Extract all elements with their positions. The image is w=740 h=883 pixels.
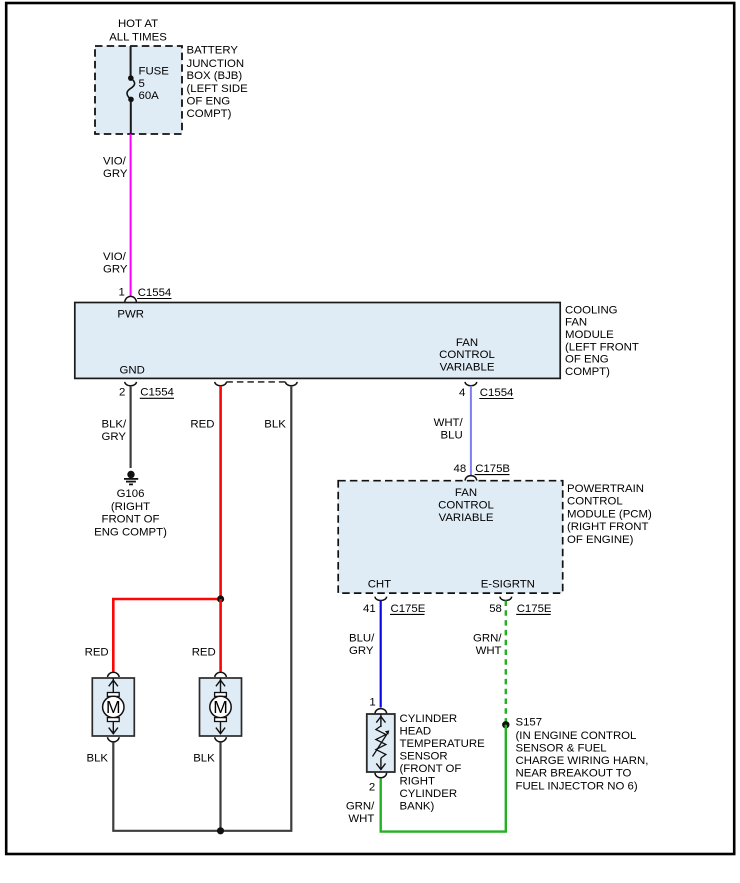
label WHT/BLU (434, 417, 464, 442)
svg-text:GND: GND (120, 365, 145, 377)
svg-text:C175E: C175E (391, 603, 426, 615)
svg-text:BLK/: BLK/ (102, 418, 128, 430)
svg-text:VARIABLE: VARIABLE (439, 512, 494, 524)
svg-text:CHT: CHT (368, 578, 391, 590)
svg-text:OF ENG: OF ENG (565, 354, 609, 366)
svg-text:BANK): BANK) (400, 801, 435, 813)
svg-text:GRY: GRY (349, 645, 374, 657)
wire WHT/BLU (470, 386, 472, 476)
svg-text:2: 2 (119, 387, 125, 399)
svg-text:OF ENGINE): OF ENGINE) (567, 534, 634, 546)
svg-text:HEAD: HEAD (400, 726, 432, 738)
svg-text:RED: RED (192, 647, 216, 659)
label POWERTRAIN CONTROL MODULE (567, 483, 652, 546)
connector C175B pin 48 (465, 463, 510, 481)
svg-text:HOT AT: HOT AT (118, 18, 158, 30)
pin name CHT (368, 578, 391, 590)
label BLK/GRY (102, 418, 128, 443)
svg-text:4: 4 (459, 387, 465, 399)
label BLK (motor 2) (193, 753, 215, 765)
svg-text:RED: RED (190, 418, 214, 430)
svg-text:C175B: C175B (475, 463, 510, 475)
wire RED junction to motor 2 (219, 599, 222, 672)
connector arc RED pin (215, 382, 227, 386)
ground G106 (124, 471, 138, 485)
label COOLING FAN MODULE (565, 304, 639, 378)
pin 2 label (119, 387, 125, 399)
svg-text:FAN: FAN (565, 317, 587, 329)
wire RED horizontal branch (113, 599, 220, 672)
svg-text:M: M (213, 697, 228, 717)
svg-text:(IN ENGINE CONTROL: (IN ENGINE CONTROL (516, 730, 637, 742)
pin name E-SIGRTN (481, 578, 535, 590)
svg-text:RIGHT: RIGHT (400, 776, 435, 788)
label RED (motor 2) (192, 647, 216, 659)
label HOT AT ALL TIMES (109, 18, 167, 44)
svg-text:PWR: PWR (117, 308, 144, 320)
svg-text:1: 1 (369, 697, 375, 709)
svg-text:C175E: C175E (517, 603, 552, 615)
svg-text:E-SIGRTN: E-SIGRTN (481, 578, 535, 590)
svg-text:C1554: C1554 (480, 387, 514, 399)
svg-text:BLK: BLK (264, 418, 286, 430)
wire GRN/WHT dashed to splice (505, 601, 507, 725)
svg-text:ALL TIMES: ALL TIMES (109, 32, 167, 44)
label VIO/GRY lower (103, 251, 128, 276)
pin 48 label (454, 463, 467, 475)
wire BLK/GRY to ground (130, 386, 132, 468)
svg-text:COMPT): COMPT) (565, 366, 610, 378)
label BATTERY JUNCTION BOX (187, 45, 249, 121)
svg-text:BOX (BJB): BOX (BJB) (187, 70, 243, 82)
wire BLK motor 2 to bus (219, 743, 221, 831)
svg-text:WHT: WHT (476, 645, 502, 657)
svg-text:SENSOR: SENSOR (400, 751, 448, 763)
svg-text:CYLINDER: CYLINDER (400, 713, 458, 725)
svg-text:WHT/: WHT/ (434, 417, 464, 429)
svg-text:C1554: C1554 (138, 287, 172, 299)
pin 1 label (CHT sensor) (369, 697, 375, 709)
cooling fan module box (75, 303, 560, 379)
connector arc BLK pin (286, 382, 298, 386)
svg-text:FAN: FAN (455, 487, 477, 499)
svg-text:41: 41 (363, 603, 376, 615)
svg-text:FAN: FAN (456, 337, 478, 349)
svg-text:BLK: BLK (87, 753, 109, 765)
svg-text:CHARGE WIRING HARN,: CHARGE WIRING HARN, (516, 755, 649, 767)
svg-text:1: 1 (118, 286, 124, 298)
wire VIO/GRY vertical (130, 134, 132, 297)
svg-text:FUSE: FUSE (139, 65, 170, 77)
fuse 5 60A (127, 65, 169, 134)
svg-text:BATTERY: BATTERY (187, 45, 239, 57)
svg-text:GRN/: GRN/ (346, 800, 375, 812)
svg-text:VARIABLE: VARIABLE (440, 361, 495, 373)
pin name GND (120, 365, 145, 377)
svg-text:48: 48 (454, 463, 467, 475)
wire: battery feed to fuse (130, 46, 132, 76)
svg-text:WHT: WHT (348, 813, 374, 825)
svg-text:5: 5 (139, 78, 145, 90)
label VIO/GRY upper (103, 156, 128, 181)
svg-text:58: 58 (489, 603, 502, 615)
wire BLK from module pin down to bottom bus (113, 386, 291, 831)
label GRN/WHT (pin 58) (473, 633, 502, 658)
svg-text:BLU: BLU (441, 430, 463, 442)
svg-text:TEMPERATURE: TEMPERATURE (400, 738, 486, 750)
motor M2 fan motor (200, 672, 242, 742)
svg-text:(RIGHT: (RIGHT (111, 501, 150, 513)
svg-text:BLK: BLK (193, 753, 215, 765)
svg-text:(FRONT OF: (FRONT OF (400, 763, 462, 775)
svg-text:GRY: GRY (102, 431, 127, 443)
wire RED from module pin down to junction (219, 386, 222, 599)
svg-text:CYLINDER: CYLINDER (400, 788, 458, 800)
svg-text:GRY: GRY (103, 263, 128, 275)
label RED (motor 1) (85, 647, 109, 659)
connector C1554 pin 1 (125, 287, 172, 303)
svg-text:60A: 60A (139, 90, 160, 102)
connector C175E pin 41 (363, 597, 426, 615)
svg-text:COOLING: COOLING (565, 304, 618, 316)
label BLU/GRY (349, 633, 375, 658)
svg-text:CONTROL: CONTROL (567, 496, 623, 508)
connector C175E pin 58 (489, 597, 552, 615)
svg-text:NEAR BREAKOUT TO: NEAR BREAKOUT TO (516, 768, 632, 780)
junction dot RED (217, 595, 224, 602)
svg-text:SENSOR & FUEL: SENSOR & FUEL (516, 743, 607, 755)
svg-text:MODULE: MODULE (565, 329, 614, 341)
svg-text:BLU/: BLU/ (349, 633, 375, 645)
svg-text:CONTROL: CONTROL (438, 499, 494, 511)
pin name PWR (117, 308, 144, 320)
label G106 (94, 488, 167, 538)
label GRN/WHT (sensor pin 2) (346, 800, 375, 825)
svg-text:POWERTRAIN: POWERTRAIN (567, 483, 644, 495)
label BLK (at module pin) (264, 418, 286, 430)
pin name FAN CONTROL VARIABLE (PCM) (438, 487, 494, 524)
label S157 (516, 717, 649, 793)
powertrain control module (PCM) box (338, 481, 563, 593)
svg-text:FUEL INJECTOR NO 6): FUEL INJECTOR NO 6) (516, 781, 638, 793)
pin 2 label (CHT sensor) (369, 782, 375, 794)
dashed connector link between RED and BLK pins (226, 381, 285, 383)
svg-text:S157: S157 (516, 717, 543, 729)
svg-text:RED: RED (85, 647, 109, 659)
svg-text:(RIGHT FRONT: (RIGHT FRONT (567, 521, 648, 533)
motor M1 fan motor (92, 672, 134, 742)
svg-text:OF ENG: OF ENG (187, 96, 231, 108)
svg-text:COMPT): COMPT) (187, 108, 232, 120)
wire BLU/GRY (380, 601, 382, 708)
connector arc sensor pin 1 (375, 709, 387, 714)
junction dot BLK bus (217, 827, 224, 834)
svg-text:FRONT OF: FRONT OF (101, 513, 159, 525)
svg-text:CONTROL: CONTROL (439, 349, 495, 361)
svg-text:VIO/: VIO/ (103, 156, 127, 168)
pin name FAN CONTROL VARIABLE (439, 337, 495, 373)
wire GRN/WHT solid from splice to sensor pin 2 (381, 725, 506, 832)
svg-text:(LEFT FRONT: (LEFT FRONT (565, 341, 639, 353)
label CYLINDER HEAD TEMPERATURE SENSOR (400, 713, 486, 813)
connector C1554 pin 4 (459, 382, 514, 399)
splice S157 (502, 721, 509, 728)
label RED (at module pin) (190, 418, 214, 430)
svg-text:MODULE (PCM): MODULE (PCM) (567, 508, 652, 520)
svg-text:ENG COMPT): ENG COMPT) (94, 526, 167, 538)
svg-text:C1554: C1554 (140, 387, 174, 399)
svg-text:JUNCTION: JUNCTION (187, 58, 245, 70)
connector C1554 pin 2 (125, 382, 174, 399)
cylinder head temperature sensor CHT (367, 714, 395, 778)
label BLK (motor 1) (87, 753, 109, 765)
battery junction box (BJB) (95, 46, 182, 134)
svg-text:(LEFT SIDE: (LEFT SIDE (187, 83, 249, 95)
pin 1 label (118, 286, 124, 298)
svg-text:G106: G106 (117, 488, 145, 500)
svg-text:GRY: GRY (103, 168, 128, 180)
svg-text:VIO/: VIO/ (103, 251, 127, 263)
svg-text:M: M (106, 697, 121, 717)
svg-text:GRN/: GRN/ (473, 633, 502, 645)
svg-text:2: 2 (369, 782, 375, 794)
